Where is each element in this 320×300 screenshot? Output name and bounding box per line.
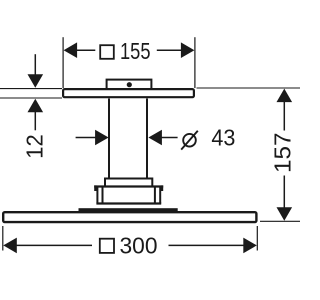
extension bar right of dim 155 [194, 37, 196, 88]
connector dot [127, 82, 132, 87]
clamp inner wall right [154, 188, 156, 204]
extension line bottom of dim 12 [0, 97, 62, 99]
clamp tick right [161, 185, 163, 191]
clamp outer wall left [96, 188, 98, 204]
dim 300 arrow left [3, 238, 16, 254]
dim 155 arrow right [181, 42, 195, 58]
pipe [109, 99, 147, 179]
dim 12 leader above [34, 54, 36, 75]
svg-text:12: 12 [22, 134, 48, 159]
clamp tick left [94, 185, 96, 191]
dim 300 arrow right [243, 238, 256, 254]
dim 155 line left segment [77, 49, 96, 51]
ceiling plate (escutcheon) [63, 89, 194, 97]
dim 12 arrow down [28, 74, 44, 88]
dim 43 leader right [162, 137, 178, 139]
dim 43 leader left [76, 137, 96, 139]
svg-text:300: 300 [120, 233, 158, 259]
dim 157 line lower segment [283, 176, 285, 208]
dim 155 square symbol [100, 45, 114, 59]
dim 43 arrow left [95, 130, 109, 146]
clamp tab line [94, 185, 163, 187]
diameter symbol slash [181, 131, 198, 150]
mounting band (dark) [79, 208, 178, 212]
extension bar left of dim 155 [62, 37, 64, 88]
svg-text:157: 157 [270, 133, 296, 174]
extension bar left of dim 300 [2, 226, 4, 251]
svg-text:155: 155 [120, 38, 151, 64]
dim 12 leader below [34, 112, 36, 131]
dim 155 line right segment [157, 49, 181, 51]
extension bar right of dim 300 [256, 226, 258, 251]
dim 300 square symbol [100, 239, 114, 253]
dim 300 line right segment [169, 244, 245, 246]
ceiling connector box [107, 80, 152, 89]
dim 12 arrow up [28, 99, 44, 113]
dim 300 line left segment [17, 244, 93, 246]
clamp bottom line [96, 202, 161, 204]
dim 155 arrow left [64, 42, 78, 58]
svg-text:43: 43 [211, 125, 235, 151]
clamp inner wall left [102, 188, 104, 204]
extension line bottom of dim 157 [260, 220, 300, 222]
clamp outer wall right [159, 188, 161, 204]
extension line top of dim 157 [197, 87, 301, 89]
dim 157 arrow down [277, 207, 293, 221]
dim 157 arrow up [277, 89, 293, 103]
dim 157 line upper segment [283, 102, 285, 131]
extension line top of dim 12 [0, 88, 62, 90]
dim 43 arrow right [148, 130, 162, 146]
diameter symbol circle [183, 134, 196, 147]
step box (upper flange) [105, 179, 152, 187]
shower plate [3, 212, 256, 222]
